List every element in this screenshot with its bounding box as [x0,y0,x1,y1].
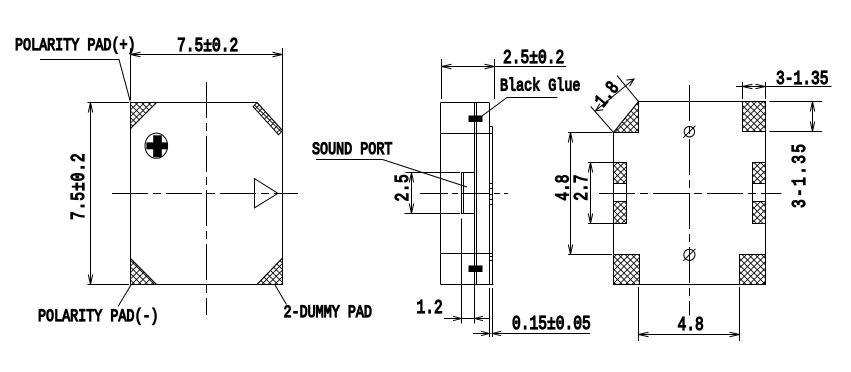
sound direction triangle [255,179,279,208]
leader POLARITY PAD(-) [118,285,131,307]
dimension 7.5±0.2 top [131,48,283,131]
side view plate hatch rungs [490,184,493,261]
leader Black Glue [482,98,558,117]
dimension 7.5±0.2 left [88,103,130,285]
black glue top [469,116,483,123]
left view body outline [131,103,283,285]
svg-text:1.8: 1.8 [592,78,625,112]
dimension text 2.5±0.2 [503,48,564,69]
svg-text:0.15±0.05: 0.15±0.05 [512,314,591,335]
dimension 3-1.35 right [770,102,823,132]
black glue bottom [469,266,483,273]
side view body outline [441,103,494,285]
svg-text:POLARITY PAD(+): POLARITY PAD(+) [15,36,136,56]
dummy pad hatched corner bottom-right [257,258,283,285]
right view right side pads [753,163,766,224]
leader SOUND PORT [316,160,467,188]
right view vertical centerline [689,85,691,316]
dimension 4.8 bottom [639,287,740,341]
dimension text 1.8 (rotated diagonal) [592,78,625,112]
vent hole bottom [683,249,695,261]
label SOUND PORT [312,139,392,159]
right view pad top-right [743,102,766,132]
right view pad bottom-left [614,255,640,285]
dimension text 1.2 [417,298,443,319]
dimension text 7.5±0.2 left (rotated) [69,152,90,220]
dimension text 2.7 (rotated) [573,175,594,201]
svg-text:7.5±0.2: 7.5±0.2 [69,152,90,220]
svg-text:SOUND PORT: SOUND PORT [312,139,392,159]
dimension text 3-1.35 right (rotated) [790,142,811,208]
right view horizontal centerline [599,193,782,195]
dimension 1.8 diagonal [591,76,639,133]
dimension 3-1.35 top [736,82,832,99]
side view horizontal centerline [420,193,508,195]
dimension 4.8 left [568,133,612,255]
leader 2-DUMMY PAD [275,285,287,305]
dimension 2.7 left [588,163,613,224]
dimension 2.5 sound port [405,173,461,214]
sound port lower extension line [461,219,463,324]
dimension text 2.5 (rotated) [393,174,414,202]
svg-text:3-1.35: 3-1.35 [776,69,829,90]
svg-text:2.5: 2.5 [393,174,414,202]
dimension text 4.8 bottom [678,315,704,336]
side view metal pad plate line [490,127,493,285]
side view base plate outer line [489,103,491,285]
dimension 0.15±0.05 [473,288,590,337]
right view pad bottom-right [740,255,766,285]
sound port opening [462,173,475,214]
right view polarity pad (+) triangle top-left [614,102,639,133]
dimension text 4.8 left (rotated) [554,175,575,201]
side view internal horizontal top [441,133,493,135]
dummy pad hatched band top-right [253,103,282,135]
svg-text:4.8: 4.8 [678,315,704,336]
label POLARITY PAD(-) [38,306,159,326]
left view vertical centerline [206,82,208,315]
svg-text:Black Glue: Black Glue [500,76,580,96]
vent hole top [683,126,695,138]
dimension 1.2 bottom [444,285,490,324]
label Black Glue [500,76,580,96]
polarity mark circle with cross [145,133,168,158]
svg-text:1.2: 1.2 [417,298,443,319]
svg-text:2-DUMMY PAD: 2-DUMMY PAD [284,302,372,322]
dimension text 3-1.35 top [776,69,829,90]
polarity pad (-) hatched corner bottom-left [131,259,157,285]
right view left side pads [614,163,627,224]
left view horizontal centerline [112,193,298,195]
dimension text 0.15±0.05 [512,314,591,335]
svg-text:3-1.35: 3-1.35 [790,142,811,208]
leader POLARITY PAD(+) [40,60,130,102]
dimension text 7.5±0.2 top [177,36,238,57]
label 2-DUMMY PAD [284,302,372,322]
svg-text:2.7: 2.7 [573,175,594,201]
svg-text:7.5±0.2: 7.5±0.2 [177,36,238,57]
side view case right wall double line [475,103,477,285]
polarity pad (+) hatched corner top-left [131,103,157,129]
svg-text:POLARITY PAD(-): POLARITY PAD(-) [38,306,159,326]
side view internal horizontal bottom [441,253,493,255]
dimension 2.5±0.2 top [442,59,567,99]
svg-text:2.5±0.2: 2.5±0.2 [503,48,564,69]
label POLARITY PAD(+) [15,36,136,56]
right view body outline [614,102,766,285]
